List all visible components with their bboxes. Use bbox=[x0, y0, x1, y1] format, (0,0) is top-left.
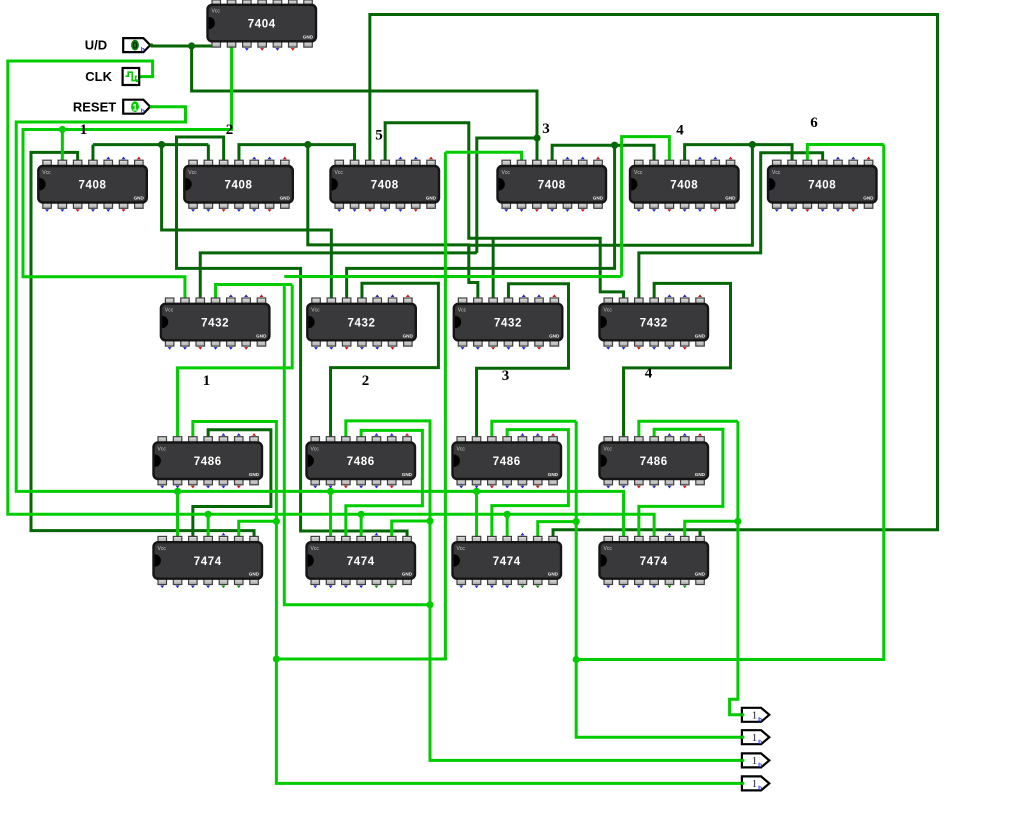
svg-text:GND: GND bbox=[402, 572, 413, 577]
IC 7408 U7 bbox=[768, 157, 877, 212]
svg-text:7486: 7486 bbox=[194, 456, 222, 468]
svg-text:7408: 7408 bbox=[225, 180, 253, 192]
IC 7408 U3 bbox=[184, 157, 292, 212]
svg-text:7408: 7408 bbox=[538, 180, 566, 192]
svg-text:Vcc: Vcc bbox=[42, 170, 51, 176]
svg-text:Vcc: Vcc bbox=[772, 170, 781, 176]
node col1 junction pin6 bbox=[273, 518, 280, 525]
svg-text:GND: GND bbox=[249, 472, 260, 477]
IC 7408 U4 bbox=[331, 157, 440, 212]
svg-text:2: 2 bbox=[226, 122, 234, 138]
svg-text:Vcc: Vcc bbox=[634, 170, 643, 176]
svg-text:Vcc: Vcc bbox=[457, 446, 466, 452]
wire U/D net west branch bbox=[477, 138, 537, 253]
svg-text:7474: 7474 bbox=[347, 556, 375, 568]
wire Q4 to 7408-6 pin 3 bbox=[807, 145, 883, 161]
svg-text:Vcc: Vcc bbox=[311, 446, 320, 452]
IC 7474 U16 bbox=[154, 533, 263, 588]
svg-text:7408: 7408 bbox=[371, 180, 399, 192]
svg-text:7474: 7474 bbox=[194, 556, 222, 568]
svg-text:Vcc: Vcc bbox=[311, 308, 320, 314]
node CLK junction 2 bbox=[358, 511, 365, 518]
wire Q4 net bbox=[576, 145, 884, 660]
wire CLK net bbox=[8, 61, 654, 536]
node col2 junction pin6 bbox=[426, 517, 433, 524]
wire RESET drop 7474-1 pin 2 bbox=[176, 491, 179, 536]
svg-text:Vcc: Vcc bbox=[158, 446, 167, 452]
wire drop to 7408-1 pin 2 bbox=[61, 130, 64, 161]
svg-text:GND: GND bbox=[549, 333, 560, 338]
wire 7432-1 pin 4 output bbox=[216, 285, 293, 299]
wire CLK drop 7474-3 pin 4 bbox=[506, 514, 509, 536]
svg-text:7404: 7404 bbox=[248, 18, 276, 30]
wire net-A to 7408-1 pin 4 bbox=[91, 145, 94, 161]
wire 7432-3 pin 4 to 7486-3 pin 2 bbox=[477, 284, 569, 437]
IC 7432 U8 bbox=[161, 294, 270, 349]
svg-text:2: 2 bbox=[362, 373, 370, 389]
svg-text:GND: GND bbox=[695, 572, 706, 577]
svg-text:GND: GND bbox=[548, 572, 559, 577]
svg-text:7474: 7474 bbox=[640, 556, 668, 568]
svg-text:GND: GND bbox=[403, 333, 414, 338]
svg-text:7432: 7432 bbox=[201, 317, 229, 329]
wire col2 main vertical bbox=[346, 421, 742, 761]
IC 7474 U19 bbox=[600, 533, 709, 588]
node col1 junction out bbox=[273, 655, 280, 662]
wire net-A to 7408-2 pin 2 bbox=[207, 145, 210, 161]
wire RESET net bbox=[16, 107, 623, 537]
wire 7408-2 pin 3 link bbox=[177, 137, 408, 536]
IC 7486 U13 bbox=[307, 433, 416, 488]
svg-text:Vcc: Vcc bbox=[604, 308, 613, 314]
wire Q3 net bbox=[622, 137, 670, 277]
node junction 7408-6 bbox=[749, 141, 756, 148]
wire 7486-1 pin 4 to 7474-1 pin 3 bbox=[193, 430, 271, 537]
svg-text:4: 4 bbox=[676, 123, 684, 139]
wire 7474-1 pin 6 branch bbox=[239, 521, 277, 536]
svg-text:4: 4 bbox=[645, 366, 653, 382]
IC 7486 U12 bbox=[154, 433, 263, 488]
svg-text:GND: GND bbox=[725, 196, 736, 201]
svg-text:7408: 7408 bbox=[808, 180, 836, 192]
svg-text:1: 1 bbox=[203, 373, 211, 389]
svg-text:0: 0 bbox=[132, 41, 137, 52]
IC 7432 U11 bbox=[600, 294, 709, 349]
svg-text:1: 1 bbox=[752, 755, 758, 767]
svg-text:Vcc: Vcc bbox=[158, 546, 167, 552]
wire junction down to 7432-3 pin 2 bbox=[469, 145, 753, 298]
IC 7408 U5 bbox=[498, 157, 607, 212]
wire to 7408-4 pin 3 bbox=[536, 138, 539, 160]
wire Q2 net bbox=[276, 152, 445, 659]
svg-text:1: 1 bbox=[132, 102, 138, 113]
wire Q2 to 7408-4 pin 2 bbox=[445, 152, 521, 160]
svg-text:GND: GND bbox=[303, 34, 314, 39]
wire to 7486-1 pin 2 bbox=[178, 285, 293, 437]
svg-text:b: b bbox=[758, 739, 762, 746]
wire 7486-4 pin 4 loop bbox=[639, 429, 723, 536]
node RESET junction 1 bbox=[174, 488, 181, 495]
wire U/D input to 7404 pin 1 bbox=[151, 45, 217, 48]
svg-text:Vcc: Vcc bbox=[212, 9, 221, 15]
wire RESET drop 7474-3 pin 2 bbox=[475, 491, 478, 536]
wire U/D net to 7432-1 pin 3 bbox=[200, 253, 477, 298]
node CLK junction 3 bbox=[504, 511, 511, 518]
wire 7408-4 pin 4 to junction bbox=[552, 145, 654, 160]
wire col4 pin3 header bbox=[639, 421, 738, 437]
input pin RESET bbox=[123, 100, 153, 115]
svg-text:GND: GND bbox=[256, 333, 267, 338]
svg-text:b: b bbox=[141, 46, 145, 53]
svg-text:Vcc: Vcc bbox=[502, 170, 511, 176]
wire 7474-3 pin 6 branch bbox=[538, 522, 576, 537]
wire col3 pin3 header bbox=[492, 421, 576, 437]
wire branch to 7432-3 pin 3 bbox=[492, 238, 495, 298]
svg-text:GND: GND bbox=[426, 196, 437, 201]
svg-text:b: b bbox=[141, 108, 145, 115]
IC 7474 U17 bbox=[307, 533, 416, 588]
svg-text:5: 5 bbox=[375, 128, 383, 144]
wire 7474-4 pin 7 drop bbox=[699, 530, 702, 537]
wire 7408-6 pin 4 link bbox=[639, 153, 823, 298]
input pin U/D bbox=[123, 38, 153, 53]
node U/D net junction at 7408-4 bbox=[533, 134, 540, 141]
svg-text:7486: 7486 bbox=[640, 456, 668, 468]
svg-text:GND: GND bbox=[548, 472, 559, 477]
wire CLK drop 7474-2 pin 4 bbox=[360, 514, 363, 536]
wire RESET drop 7474-2 pin 2 bbox=[329, 491, 332, 536]
node net-A junction bbox=[158, 141, 165, 148]
svg-text:1: 1 bbox=[752, 710, 758, 722]
svg-text:GND: GND bbox=[134, 196, 145, 201]
svg-text:1: 1 bbox=[80, 122, 88, 138]
svg-text:Vcc: Vcc bbox=[188, 170, 197, 176]
svg-text:GND: GND bbox=[863, 196, 874, 201]
svg-text:Vcc: Vcc bbox=[165, 308, 174, 314]
wire 7408-3 pin 4 link bbox=[385, 123, 623, 298]
svg-text:1: 1 bbox=[752, 732, 758, 744]
wire U/D net riser bbox=[308, 145, 469, 253]
node U/D junction bbox=[188, 42, 195, 49]
input clock CLK bbox=[123, 68, 140, 85]
svg-text:7408: 7408 bbox=[79, 180, 107, 192]
svg-text:7408: 7408 bbox=[670, 180, 698, 192]
svg-text:7486: 7486 bbox=[347, 456, 375, 468]
svg-text:7432: 7432 bbox=[494, 317, 522, 329]
node RESET junction 3 bbox=[473, 488, 480, 495]
wire big feedback loop bbox=[370, 15, 938, 537]
svg-text:GND: GND bbox=[695, 472, 706, 477]
IC 7408 U6 bbox=[630, 157, 739, 212]
node col3 junction pin6 bbox=[573, 518, 580, 525]
svg-text:RESET: RESET bbox=[73, 99, 116, 114]
node U/D net junction on bus bbox=[304, 141, 311, 148]
svg-text:Vcc: Vcc bbox=[604, 546, 613, 552]
svg-text:7486: 7486 bbox=[493, 456, 521, 468]
svg-text:3: 3 bbox=[542, 121, 550, 137]
svg-text:Vcc: Vcc bbox=[335, 170, 344, 176]
wire 7486-2 pin 4 loop bbox=[346, 430, 423, 536]
wire 7432-2 pin 4 to 7486-2 pin 2 bbox=[331, 283, 439, 437]
output pin OUT3 bbox=[741, 753, 769, 769]
wire 7408-5 pin 4 to 7408-6 pin 2 bbox=[685, 145, 792, 161]
node junction 7408-5 bbox=[611, 142, 618, 149]
IC 7474 U18 bbox=[453, 533, 562, 588]
svg-text:b: b bbox=[758, 717, 762, 724]
wire U/D bus to 7408-2 pin 4 bbox=[239, 145, 355, 161]
wire CLK drop 7474-1 pin 4 bbox=[207, 514, 210, 536]
svg-text:Vcc: Vcc bbox=[457, 546, 466, 552]
svg-text:GND: GND bbox=[695, 333, 706, 338]
svg-text:7432: 7432 bbox=[348, 317, 376, 329]
wire branch down col link bbox=[284, 285, 430, 605]
IC 7404 U1 bbox=[208, 0, 317, 51]
wire col1 main vertical bbox=[193, 422, 742, 784]
output pin OUT2 bbox=[741, 730, 769, 746]
IC 7408 U2 bbox=[38, 157, 147, 212]
svg-text:U/D: U/D bbox=[85, 38, 107, 53]
node inverted U/D junction bbox=[59, 126, 66, 133]
wire net-A horizontal bbox=[93, 143, 208, 146]
wire 7474-2 pin 6 branch bbox=[392, 521, 430, 536]
svg-text:CLK: CLK bbox=[85, 69, 112, 84]
IC 7486 U14 bbox=[453, 433, 562, 488]
wire 7408-1 pin 3 link bbox=[31, 152, 254, 536]
output pin OUT4 bbox=[741, 776, 769, 792]
node CLK junction 1 bbox=[205, 511, 212, 518]
svg-text:7432: 7432 bbox=[640, 317, 668, 329]
wire col3 main vertical bbox=[576, 421, 742, 737]
svg-text:7474: 7474 bbox=[493, 556, 521, 568]
node col4 junction pin6 bbox=[734, 518, 741, 525]
svg-text:3: 3 bbox=[502, 368, 510, 384]
IC 7432 U9 bbox=[307, 294, 416, 349]
output pin OUT1 bbox=[741, 708, 769, 724]
node col3 junction out bbox=[573, 656, 580, 663]
wire 7432-4 pin 4 to 7486-4 pin 2 bbox=[624, 283, 731, 436]
svg-text:1: 1 bbox=[752, 778, 758, 790]
wire 7474-4 pin 6 branch bbox=[685, 521, 738, 536]
svg-text:Vcc: Vcc bbox=[604, 446, 613, 452]
IC 7486 U15 bbox=[600, 433, 709, 488]
wire inverted U/D net bbox=[23, 47, 232, 299]
svg-text:b: b bbox=[758, 785, 762, 792]
wire junction down to 7432-2 pin 3 bbox=[347, 145, 615, 298]
svg-text:b: b bbox=[758, 762, 762, 769]
svg-text:GND: GND bbox=[280, 196, 291, 201]
node col2 junction 604 bbox=[426, 601, 433, 608]
svg-text:GND: GND bbox=[402, 472, 413, 477]
wire col4 main vertical bbox=[730, 421, 742, 715]
svg-text:Vcc: Vcc bbox=[458, 308, 467, 314]
wire Q3 horizontal bbox=[284, 275, 621, 278]
wire U/D junction down bbox=[192, 46, 537, 138]
svg-text:GND: GND bbox=[593, 196, 604, 201]
svg-text:GND: GND bbox=[249, 572, 260, 577]
node RESET junction 2 bbox=[327, 488, 334, 495]
IC 7432 U10 bbox=[454, 294, 563, 349]
wire 7486-3 pin 4 loop bbox=[492, 430, 569, 537]
wire net-A to 7432-2 pin 2 bbox=[162, 145, 332, 298]
svg-text:Vcc: Vcc bbox=[311, 546, 320, 552]
svg-text:6: 6 bbox=[810, 115, 818, 131]
